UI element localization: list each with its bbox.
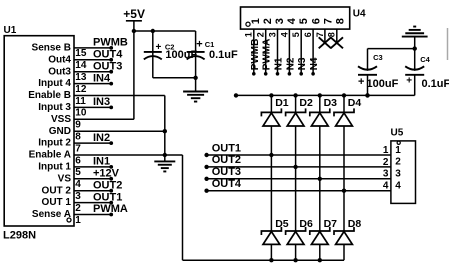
- wire net OUT2 to U5 pin 2: [204, 154, 390, 169]
- svg-text:2: 2: [383, 157, 389, 168]
- svg-text:7: 7: [75, 143, 81, 154]
- wire U1 pin 7 stub, net IN2: [74, 132, 113, 145]
- wire U1 pin 11 (Enable B row) down to GND rail: [74, 96, 165, 162]
- svg-text:OUT3: OUT3: [93, 60, 122, 72]
- svg-text:Out3: Out3: [48, 66, 71, 77]
- svg-text:3: 3: [383, 169, 389, 180]
- wire U4 pin 4, net N2: [279, 29, 296, 76]
- svg-text:5: 5: [298, 18, 310, 24]
- svg-text:+12V: +12V: [93, 168, 120, 180]
- connector U5 4-pin header body: [391, 141, 416, 204]
- node GND junction at ground symbol: [163, 153, 167, 157]
- ground below U1: [154, 161, 175, 171]
- svg-text:N1: N1: [274, 57, 285, 70]
- svg-text:4: 4: [286, 17, 298, 24]
- svg-text:D2: D2: [299, 97, 313, 109]
- svg-text:Sense A: Sense A: [32, 209, 71, 220]
- diode D6: [286, 167, 313, 260]
- svg-text:3: 3: [75, 191, 81, 202]
- IC U1 L298N body: [4, 36, 74, 226]
- wire U1 pin 1 stub, net PWMA: [74, 203, 128, 216]
- svg-text:C3: C3: [373, 53, 383, 62]
- capacitor C3 100uF: [358, 49, 399, 98]
- capacitor C2 100uF: [144, 31, 198, 78]
- svg-text:15: 15: [75, 48, 87, 59]
- svg-text:D4: D4: [348, 97, 362, 109]
- svg-text:C4: C4: [420, 55, 430, 64]
- svg-text:PWMB: PWMB: [250, 39, 261, 71]
- svg-text:7: 7: [322, 18, 334, 24]
- svg-text:Sense B: Sense B: [32, 43, 71, 54]
- svg-text:5: 5: [75, 167, 81, 178]
- svg-text:U5: U5: [391, 128, 404, 139]
- svg-text:PWMB: PWMB: [93, 37, 128, 49]
- svg-text:11: 11: [75, 96, 86, 107]
- svg-text:OUT1: OUT1: [212, 142, 241, 154]
- svg-text:PWMA: PWMA: [93, 203, 128, 215]
- diode D2: [286, 95, 313, 169]
- svg-text:OUT4: OUT4: [93, 49, 123, 61]
- svg-text:IN4: IN4: [93, 72, 111, 84]
- diode D4: [334, 95, 361, 192]
- diode D3: [310, 95, 337, 181]
- svg-text:7: 7: [315, 32, 325, 37]
- svg-text:D1: D1: [275, 97, 289, 109]
- svg-text:2: 2: [75, 203, 81, 214]
- svg-text:IN2: IN2: [93, 132, 110, 144]
- svg-text:6: 6: [303, 32, 313, 37]
- svg-text:+5V: +5V: [123, 7, 145, 21]
- svg-text:8: 8: [75, 132, 81, 143]
- svg-text:+: +: [196, 39, 202, 51]
- wire U1 pin 4 stub, net +12V: [74, 168, 120, 181]
- svg-text:5: 5: [291, 32, 301, 37]
- U1 pin 1 marker: [67, 218, 71, 222]
- svg-text:D7: D7: [324, 218, 338, 230]
- U1 pin name labels: [28, 43, 71, 221]
- svg-text:U1: U1: [4, 25, 17, 36]
- svg-text:4: 4: [395, 181, 401, 192]
- svg-text:1: 1: [383, 145, 389, 156]
- wire U4 pin 3, net N1: [267, 29, 284, 76]
- svg-text:1: 1: [250, 18, 262, 24]
- svg-text:GND: GND: [49, 126, 71, 137]
- svg-text:OUT3: OUT3: [212, 166, 241, 178]
- svg-text:+: +: [156, 42, 162, 53]
- svg-text:OUT4: OUT4: [212, 178, 242, 190]
- power symbol +5V: [123, 7, 145, 21]
- label U5: [391, 128, 404, 139]
- ground below C1/C2: [183, 92, 208, 102]
- svg-text:1: 1: [244, 32, 254, 37]
- svg-text:D3: D3: [324, 97, 338, 109]
- wire +12V bus (diode cathode rail): [234, 93, 415, 97]
- svg-text:D5: D5: [275, 218, 289, 230]
- wire +5V branch to bypass capacitors: [134, 29, 196, 33]
- svg-text:N4: N4: [309, 57, 320, 70]
- svg-text:C1: C1: [205, 40, 215, 49]
- svg-text:1: 1: [75, 215, 81, 226]
- svg-text:PWMA: PWMA: [262, 39, 273, 71]
- svg-text:+: +: [406, 76, 412, 87]
- wire U1 pin 12 stub, net IN4: [74, 72, 113, 85]
- svg-text:12: 12: [75, 84, 87, 95]
- svg-text:9: 9: [75, 120, 81, 131]
- svg-text:Input 2: Input 2: [38, 138, 71, 149]
- wire U1 pin 5 stub, net IN1: [74, 156, 113, 169]
- svg-text:IN3: IN3: [93, 96, 110, 108]
- wire C2 to C1 bottom link: [153, 76, 198, 80]
- svg-text:OUT2: OUT2: [93, 179, 122, 191]
- svg-text:2: 2: [262, 18, 274, 24]
- wire U4 pin 5, net N3: [291, 29, 308, 76]
- wire U1 pin 13 stub, net OUT3: [74, 60, 122, 73]
- svg-text:8: 8: [327, 32, 337, 37]
- wire U1 pin 2 stub, net OUT1: [74, 191, 122, 204]
- wire U4 pin 1, net PWMB: [244, 29, 261, 76]
- svg-text:D8: D8: [348, 218, 362, 230]
- svg-text:2: 2: [256, 32, 266, 37]
- svg-text:3: 3: [267, 32, 277, 37]
- capacitor C1 0.1uF: [187, 31, 238, 91]
- wire net OUT1 to U5 pin 1: [204, 142, 390, 157]
- svg-text:N2: N2: [285, 57, 296, 70]
- svg-text:OUT 2: OUT 2: [42, 185, 72, 196]
- connector U4 8-pin header body: [241, 7, 350, 29]
- svg-text:N3: N3: [297, 57, 308, 70]
- U4 pin 1 marker: [246, 22, 250, 26]
- svg-text:10: 10: [75, 108, 87, 119]
- svg-text:+: +: [358, 76, 364, 88]
- label U4: [353, 9, 366, 20]
- svg-text:Input 3: Input 3: [38, 102, 71, 113]
- wire U4 pin 7 no-connect X: [315, 29, 331, 48]
- svg-text:IN1: IN1: [93, 156, 110, 168]
- svg-text:OUT 1: OUT 1: [42, 197, 72, 208]
- wire U4 pin 2, net PWMA: [256, 29, 273, 76]
- wire +5V rail to U1 VSS pin 9: [74, 21, 136, 120]
- svg-text:3: 3: [395, 169, 401, 180]
- svg-text:2: 2: [395, 157, 401, 168]
- svg-text:L298N: L298N: [3, 230, 36, 242]
- U5 pin numbers 1-4: [383, 145, 401, 192]
- svg-text:OUT2: OUT2: [212, 154, 241, 166]
- diode D8: [334, 191, 361, 261]
- svg-text:6: 6: [75, 155, 81, 166]
- svg-text:VS: VS: [58, 173, 72, 184]
- svg-text:8: 8: [335, 18, 347, 24]
- wire U4 pin 8 no-connect X: [327, 29, 343, 48]
- wire U1 pin 3 stub, net OUT2: [74, 179, 122, 192]
- ground (inverted) top right: [402, 27, 428, 37]
- svg-text:14: 14: [75, 60, 87, 71]
- wire U4 pin 6, net N4: [303, 29, 320, 76]
- wire U1 pin 10 stub, net IN3: [74, 96, 113, 109]
- wire net OUT3 to U5 pin 3: [204, 166, 390, 181]
- wire U1 pin 15 stub, net PWMB: [74, 37, 128, 50]
- wire top-right ground to C3/C4: [368, 37, 417, 51]
- svg-text:Input 4: Input 4: [38, 78, 71, 89]
- U1 pin numbers 15..1: [75, 48, 87, 226]
- wire net OUT4 to U5 pin 4: [204, 178, 390, 193]
- svg-text:Enable A: Enable A: [29, 150, 71, 161]
- svg-text:D6: D6: [299, 218, 313, 230]
- svg-text:Enable B: Enable B: [28, 90, 71, 101]
- label L298N: [3, 230, 36, 242]
- U4 pin numbers 1-8 (inside body): [250, 17, 347, 24]
- svg-text:Out4: Out4: [48, 54, 71, 65]
- svg-text:100uF: 100uF: [367, 78, 399, 90]
- wire U1 Enable A row (pin 7) to bottom diode bus: [74, 155, 344, 262]
- svg-text:13: 13: [75, 72, 87, 83]
- svg-text:0.1uF: 0.1uF: [209, 49, 238, 61]
- capacitor C4 0.1uF: [405, 49, 449, 96]
- diode D5: [261, 155, 288, 260]
- svg-text:OUT1: OUT1: [93, 191, 122, 203]
- svg-text:100uF: 100uF: [165, 49, 197, 61]
- diode D7: [310, 179, 337, 260]
- wire U1 GND pin 8: [74, 129, 167, 133]
- svg-text:Input 1: Input 1: [38, 162, 71, 173]
- svg-text:VSS: VSS: [51, 114, 71, 125]
- svg-text:3: 3: [274, 18, 286, 24]
- svg-text:1: 1: [395, 145, 401, 156]
- svg-text:4: 4: [279, 32, 289, 37]
- label U1: [4, 25, 17, 36]
- svg-text:4: 4: [383, 181, 389, 192]
- svg-text:4: 4: [75, 179, 81, 190]
- svg-text:6: 6: [310, 18, 322, 24]
- diode D1: [261, 95, 288, 157]
- svg-text:U4: U4: [353, 9, 366, 20]
- U5 pin 1 marker: [397, 141, 400, 144]
- svg-text:0.1uF: 0.1uF: [422, 78, 449, 90]
- wire U1 pin 14 stub, net OUT4: [74, 49, 123, 62]
